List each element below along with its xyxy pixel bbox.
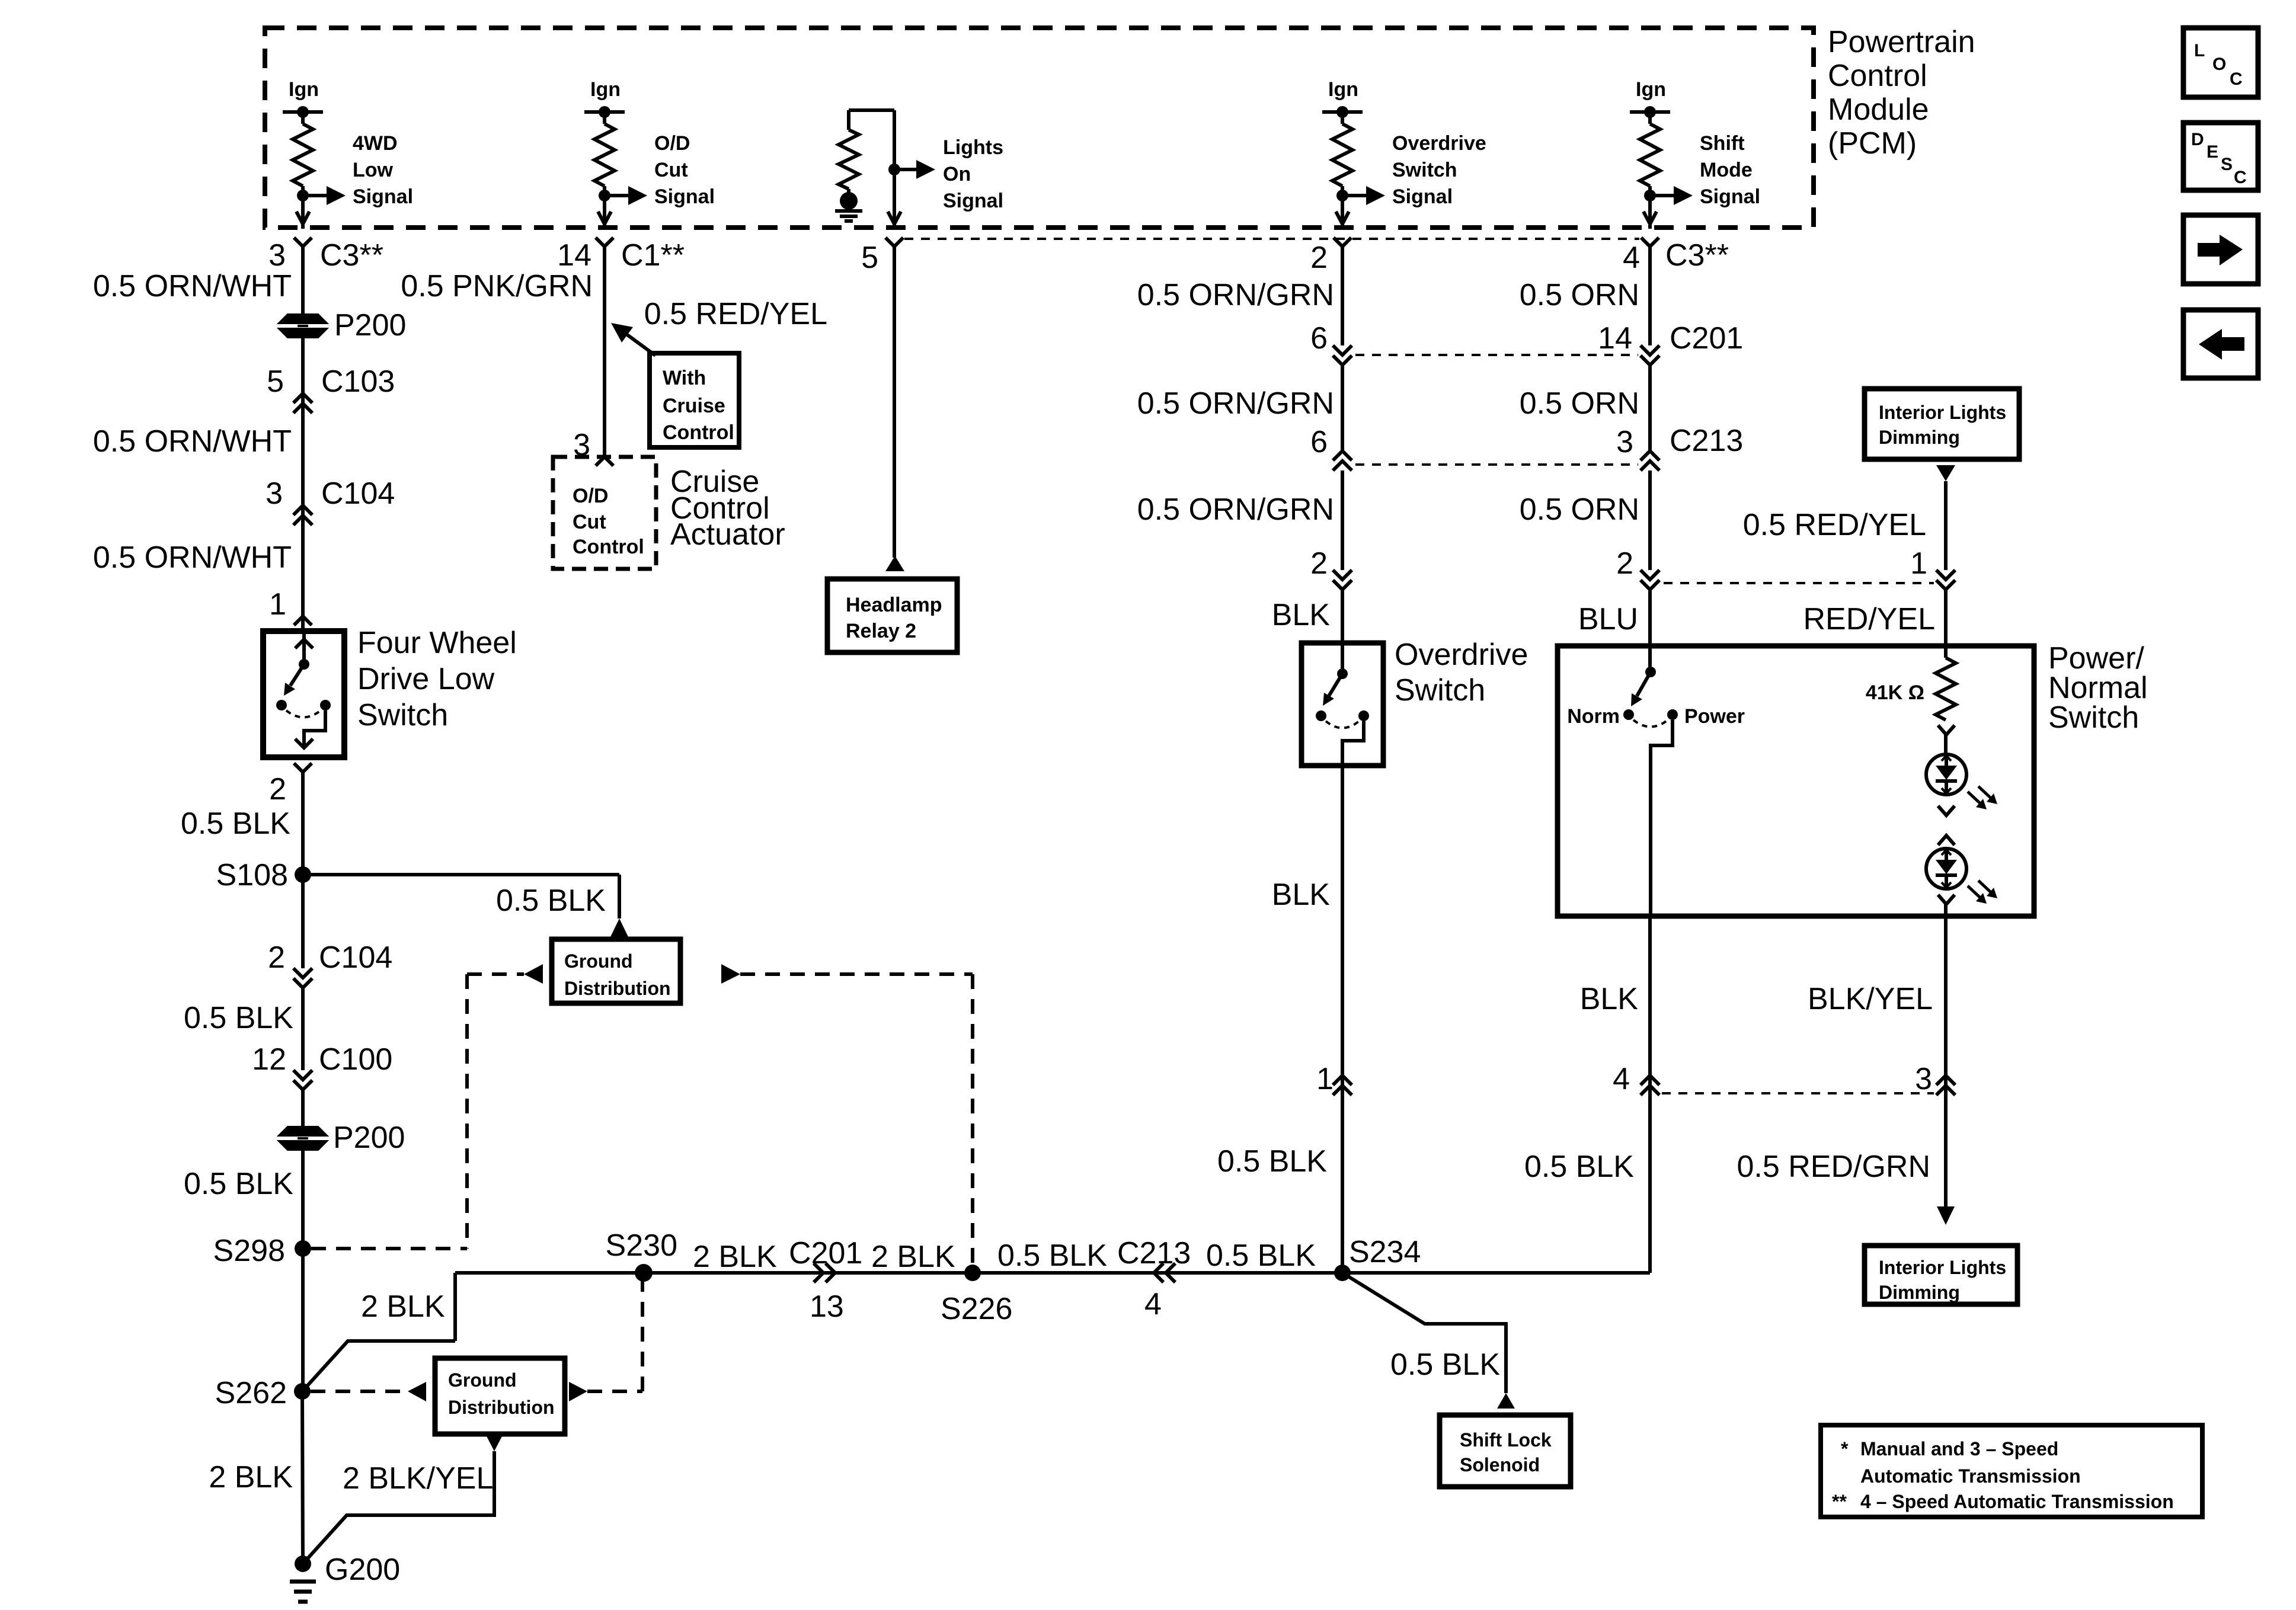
resistor Shift Mode pull-up bbox=[1640, 112, 1660, 229]
dashed wire Ground Distribution to S226 bbox=[740, 974, 973, 1266]
svg-text:12: 12 bbox=[252, 1042, 286, 1077]
svg-text:C104: C104 bbox=[319, 940, 392, 975]
connector C100 pin 12 bbox=[252, 1042, 392, 1090]
svg-text:Overdrive: Overdrive bbox=[1395, 638, 1528, 672]
node signal tap (Overdrive Switch) bbox=[1336, 186, 1385, 205]
wire 0.5 BLK (col1 P200-S298) bbox=[184, 1147, 303, 1249]
svg-text:Control: Control bbox=[1828, 59, 1927, 93]
svg-text:S230: S230 bbox=[606, 1228, 677, 1263]
svg-text:C100: C100 bbox=[319, 1042, 392, 1077]
connector C201 pin 14 (col5) bbox=[1598, 321, 1743, 365]
label Powertrain Control Module (PCM) bbox=[1828, 25, 1975, 161]
wire 0.5 ORN (col5 seg3) bbox=[1520, 470, 1650, 570]
svg-text:Cruise: Cruise bbox=[663, 395, 725, 417]
svg-text:0.5 ORN: 0.5 ORN bbox=[1520, 492, 1639, 527]
svg-text:Signal: Signal bbox=[943, 190, 1003, 212]
svg-text:0.5 ORN/GRN: 0.5 ORN/GRN bbox=[1137, 492, 1334, 527]
wire exit arrow (Overdrive Switch) bbox=[1336, 212, 1349, 224]
svg-text:0.5 RED/YEL: 0.5 RED/YEL bbox=[644, 297, 827, 331]
connector C3** pin 4 (col5) bbox=[1623, 238, 1729, 275]
wire col1 S262 to G200 bbox=[302, 1391, 303, 1564]
svg-text:BLU: BLU bbox=[1578, 602, 1638, 636]
off-page triangle to ground wire (below lower box) bbox=[485, 1434, 503, 1451]
svg-text:Ground: Ground bbox=[448, 1369, 517, 1391]
svg-text:Automatic Transmission: Automatic Transmission bbox=[1860, 1465, 2081, 1487]
box Headlamp Relay 2 bbox=[827, 579, 957, 652]
wire BLK (col5 below switch) bbox=[1580, 916, 1650, 1095]
svg-text:Dimming: Dimming bbox=[1879, 427, 1960, 448]
LED indicator 2 bbox=[1926, 849, 1997, 904]
switch Overdrive Switch bbox=[1302, 643, 1383, 766]
wire 0.5 BLK to Shift Lock Solenoid bbox=[1342, 1273, 1506, 1393]
svg-text:Actuator: Actuator bbox=[670, 517, 785, 552]
svg-text:Cut: Cut bbox=[654, 159, 688, 181]
off-page triangle to Interior Lights Dimming (lower) bbox=[1937, 1206, 1955, 1225]
switch connector pin 2 (col4) bbox=[1310, 546, 1352, 590]
node Ign (4WD Low) bbox=[283, 78, 323, 118]
svg-text:S108: S108 bbox=[216, 858, 288, 892]
label Shift Mode signal bbox=[1700, 132, 1760, 208]
svg-text:Signal: Signal bbox=[654, 185, 715, 208]
svg-text:Signal: Signal bbox=[353, 185, 413, 208]
svg-text:C104: C104 bbox=[321, 476, 395, 511]
switch pin 2 bbox=[269, 763, 312, 806]
svg-text:Interior Lights: Interior Lights bbox=[1879, 402, 2006, 423]
LED indicator 1 bbox=[1926, 754, 1997, 809]
svg-text:2: 2 bbox=[1310, 546, 1328, 581]
svg-text:0.5 BLK: 0.5 BLK bbox=[181, 806, 290, 841]
wire 0.5 ORN (col5 seg1) bbox=[1520, 257, 1650, 345]
connector row dashed (bottom switch connector) bbox=[1662, 1092, 1934, 1094]
svg-text:1: 1 bbox=[1910, 546, 1927, 581]
svg-text:Ign: Ign bbox=[1328, 78, 1358, 101]
svg-text:Four Wheel: Four Wheel bbox=[357, 626, 517, 660]
svg-text:C103: C103 bbox=[321, 364, 395, 399]
wire ground bus (2 BLK / 0.5 BLK) bbox=[455, 1271, 1650, 1275]
label Overdrive Switch signal bbox=[1392, 132, 1486, 208]
dashed wire S298 to Ground Distribution bbox=[311, 974, 524, 1249]
svg-text:On: On bbox=[943, 163, 971, 185]
svg-text:Distribution: Distribution bbox=[564, 978, 671, 999]
svg-text:C3**: C3** bbox=[320, 238, 383, 273]
wire 0.5 ORN/WHT (col1 seg2) bbox=[93, 415, 303, 524]
box Shift Lock Solenoid bbox=[1440, 1415, 1571, 1487]
wire 2 BLK (col1 S298-S262) bbox=[209, 1249, 303, 1494]
wire 0.5 ORN/GRN (col4 seg3) bbox=[1137, 470, 1342, 570]
svg-text:3: 3 bbox=[1616, 425, 1633, 459]
switch Power/Normal Switch bbox=[1558, 646, 2034, 916]
connector row dashed C213 bbox=[1355, 463, 1638, 466]
svg-text:Switch: Switch bbox=[357, 698, 448, 732]
off-page triangle right (lower Ground Distribution) bbox=[569, 1382, 587, 1401]
svg-text:With: With bbox=[663, 367, 706, 389]
svg-text:Module: Module bbox=[1828, 92, 1929, 127]
switch pin 1 bbox=[269, 587, 312, 625]
off-page triangle to Shift Lock Solenoid bbox=[1497, 1393, 1515, 1409]
svg-text:S262: S262 bbox=[215, 1376, 287, 1410]
wire BLK/YEL (col6 below switch) bbox=[1808, 916, 1946, 1095]
svg-text:5: 5 bbox=[861, 241, 878, 275]
svg-text:BLK: BLK bbox=[1272, 598, 1331, 632]
svg-text:4WD: 4WD bbox=[353, 132, 398, 155]
svg-text:(PCM): (PCM) bbox=[1828, 126, 1917, 161]
svg-text:E: E bbox=[2207, 142, 2218, 162]
connector row dashed (switch connector) bbox=[1664, 582, 1934, 584]
connector pin 3 (O/D Cut Control) bbox=[573, 428, 613, 466]
svg-text:2: 2 bbox=[1616, 546, 1633, 581]
wire 0.5 RED/YEL (col6 top) bbox=[1743, 481, 1946, 570]
label note arrow With Cruise Control bbox=[611, 323, 655, 356]
ground (PCM internal) bbox=[835, 192, 862, 221]
box O/D Cut Control (dashed) bbox=[553, 457, 656, 569]
svg-text:4 – Speed Automatic Transmissi: 4 – Speed Automatic Transmission bbox=[1860, 1491, 2174, 1512]
svg-text:1: 1 bbox=[1316, 1062, 1334, 1096]
svg-text:Overdrive: Overdrive bbox=[1392, 132, 1486, 155]
svg-text:2: 2 bbox=[1310, 241, 1328, 275]
svg-text:0.5 PNK/GRN: 0.5 PNK/GRN bbox=[401, 269, 593, 303]
wire 0.5 BLK (col1 to S108) bbox=[181, 783, 303, 968]
svg-text:Mode: Mode bbox=[1700, 159, 1753, 181]
connector C103 pin 5 bbox=[267, 364, 395, 413]
splice S226 bbox=[941, 1265, 1012, 1326]
svg-text:Cut: Cut bbox=[573, 511, 606, 533]
connector C213 pin 3 (col5) bbox=[1616, 424, 1743, 470]
svg-text:0.5 ORN/WHT: 0.5 ORN/WHT bbox=[93, 540, 292, 575]
svg-text:2 BLK: 2 BLK bbox=[693, 1240, 777, 1274]
connector C104 pin 3 bbox=[266, 476, 395, 525]
svg-text:RED/YEL: RED/YEL bbox=[1803, 602, 1935, 636]
svg-text:5: 5 bbox=[267, 364, 284, 399]
connector P200 (lower) bbox=[281, 1121, 405, 1155]
wire 0.5 BLK (col1 C104-C100) bbox=[184, 988, 303, 1070]
node Ign (Overdrive Switch) bbox=[1322, 78, 1363, 118]
label O/D Cut signal bbox=[654, 132, 715, 208]
dashed wire S262 to Ground Distribution (lower) bbox=[311, 1390, 407, 1393]
svg-text:Shift: Shift bbox=[1700, 132, 1745, 155]
svg-text:Power: Power bbox=[1684, 705, 1745, 728]
svg-text:0.5 BLK: 0.5 BLK bbox=[184, 1001, 293, 1035]
svg-text:4: 4 bbox=[1623, 241, 1640, 275]
connector C3** pin 3 (col1) bbox=[268, 238, 383, 273]
svg-text:C3**: C3** bbox=[1665, 238, 1729, 273]
connector C104 pin 2 (lower) bbox=[268, 940, 392, 988]
svg-text:Signal: Signal bbox=[1392, 185, 1453, 208]
connector C201 pin 6 (col4) bbox=[1310, 321, 1352, 365]
wire exit arrow (O/D Cut) bbox=[598, 212, 611, 224]
wire 0.5 ORN (col5 seg2) bbox=[1520, 365, 1650, 451]
svg-text:Ground: Ground bbox=[564, 950, 633, 972]
svg-text:2: 2 bbox=[268, 940, 285, 975]
wire BLK (col4 to Overdrive Switch) bbox=[1272, 590, 1342, 674]
wire 0.5 BLK (col5 to bus) bbox=[1524, 1095, 1650, 1273]
svg-text:1: 1 bbox=[269, 587, 286, 622]
label Lights On Signal bbox=[943, 136, 1003, 212]
switch Four Wheel Drive Low Switch bbox=[263, 631, 344, 757]
connector row dashed C201 bbox=[1355, 354, 1638, 356]
node Lights On tap bbox=[888, 110, 935, 229]
svg-text:0.5 ORN/GRN: 0.5 ORN/GRN bbox=[1137, 386, 1334, 421]
svg-text:S226: S226 bbox=[941, 1292, 1012, 1326]
svg-text:0.5 ORN: 0.5 ORN bbox=[1520, 386, 1639, 421]
node Ign (Shift Mode) bbox=[1630, 78, 1670, 118]
node Ign (O/D Cut) bbox=[584, 78, 625, 118]
svg-text:4: 4 bbox=[1613, 1062, 1630, 1096]
off-page triangle left (lower Ground Distribution) bbox=[408, 1382, 426, 1401]
resistor Lights On pull-down (internal, grounded) bbox=[839, 110, 894, 196]
box With Cruise Control bbox=[650, 353, 739, 447]
svg-text:O/D: O/D bbox=[654, 132, 690, 155]
ground G200 bbox=[290, 1553, 400, 1602]
svg-text:Control: Control bbox=[663, 421, 734, 444]
svg-text:Low: Low bbox=[353, 159, 394, 181]
resistor O/D Cut pull-up bbox=[594, 112, 615, 229]
svg-text:Distribution: Distribution bbox=[448, 1397, 555, 1418]
connector C201 pin 13 (bus) bbox=[789, 1236, 862, 1324]
wire 2 BLK riser S262 to ground bus bbox=[302, 1273, 455, 1391]
svg-text:0.5 ORN: 0.5 ORN bbox=[1520, 278, 1639, 312]
svg-text:C213: C213 bbox=[1670, 424, 1743, 458]
svg-text:6: 6 bbox=[1310, 321, 1328, 356]
label Four Wheel Drive Low Switch bbox=[357, 626, 517, 732]
svg-text:L: L bbox=[2194, 41, 2205, 60]
connector pin 5 (col3) bbox=[861, 238, 903, 275]
node signal tap (4WD Low) bbox=[297, 186, 346, 205]
svg-text:Lights: Lights bbox=[943, 136, 1003, 159]
svg-text:14: 14 bbox=[557, 238, 591, 273]
svg-text:Solenoid: Solenoid bbox=[1460, 1454, 1540, 1475]
svg-text:Relay 2: Relay 2 bbox=[846, 620, 916, 642]
note box transmission footnotes bbox=[1821, 1425, 2202, 1517]
switch connector pin 2 (col5) bbox=[1616, 546, 1659, 590]
svg-text:2 BLK: 2 BLK bbox=[361, 1289, 445, 1324]
wire LED2 to box bottom bbox=[1938, 895, 1955, 916]
svg-text:S234: S234 bbox=[1349, 1235, 1421, 1269]
svg-text:C201: C201 bbox=[1670, 321, 1743, 356]
box Ground Distribution (lower) bbox=[435, 1358, 565, 1434]
label 4WD Low signal bbox=[353, 132, 413, 208]
box Interior Lights Dimming (upper) bbox=[1865, 389, 2019, 459]
switch connector pin 1 (col6) bbox=[1910, 546, 1955, 590]
svg-text:P200: P200 bbox=[334, 308, 406, 343]
svg-text:2 BLK: 2 BLK bbox=[209, 1460, 293, 1494]
label Overdrive Switch bbox=[1395, 638, 1528, 708]
wire RED/YEL (col6 to switch box) bbox=[1803, 590, 1946, 646]
svg-text:Shift Lock: Shift Lock bbox=[1460, 1429, 1552, 1451]
svg-text:6: 6 bbox=[1310, 425, 1328, 459]
splice S230 bbox=[606, 1228, 677, 1282]
svg-text:3: 3 bbox=[268, 238, 286, 273]
off-page triangle left (upper Ground Distribution) bbox=[524, 964, 543, 984]
wire BLK (col4 below Overdrive Switch) bbox=[1272, 766, 1342, 1095]
wire 0.5 ORN/WHT (col1 seg1) bbox=[93, 257, 303, 316]
svg-text:0.5 BLK: 0.5 BLK bbox=[1217, 1144, 1327, 1179]
node signal tap (Shift Mode) bbox=[1644, 186, 1693, 205]
connector C213 pin 6 (col4) bbox=[1310, 425, 1352, 470]
switch connector pin 1 (col4) bbox=[1316, 1062, 1352, 1096]
svg-text:0.5 RED/YEL: 0.5 RED/YEL bbox=[1743, 508, 1926, 542]
resistor 41K ohm bbox=[1866, 646, 1956, 754]
wire BLU (col5 to Power/Normal Switch) bbox=[1578, 590, 1650, 672]
svg-text:Manual and 3 – Speed: Manual and 3 – Speed bbox=[1860, 1438, 2058, 1459]
svg-text:C: C bbox=[2234, 168, 2247, 187]
svg-text:14: 14 bbox=[1598, 321, 1632, 356]
splice S262 bbox=[215, 1376, 311, 1410]
legend box DESC bbox=[2183, 123, 2258, 190]
label Cruise Control Actuator bbox=[670, 465, 785, 552]
svg-text:3: 3 bbox=[266, 476, 283, 511]
svg-text:C1**: C1** bbox=[621, 238, 685, 273]
svg-text:Switch: Switch bbox=[1392, 159, 1457, 181]
wire 0.5 ORN/GRN (col4 seg2) bbox=[1137, 365, 1342, 451]
svg-text:0.5 BLK: 0.5 BLK bbox=[1390, 1347, 1500, 1382]
svg-text:2 BLK/YEL: 2 BLK/YEL bbox=[343, 1461, 493, 1496]
svg-text:0.5 ORN/WHT: 0.5 ORN/WHT bbox=[93, 269, 292, 303]
wire exit arrow (4WD Low) bbox=[296, 212, 309, 224]
wire 0.5 ORN/WHT (col1 seg3) bbox=[93, 524, 303, 631]
svg-text:Dimming: Dimming bbox=[1879, 1282, 1960, 1303]
svg-text:Powertrain: Powertrain bbox=[1828, 25, 1975, 59]
label Power/Normal Switch bbox=[2048, 641, 2148, 735]
switch connector pin 3 (col6) bbox=[1915, 1062, 1955, 1096]
svg-text:0.5 BLK: 0.5 BLK bbox=[997, 1238, 1107, 1273]
svg-text:C213: C213 bbox=[1117, 1236, 1191, 1270]
splice S234 bbox=[1334, 1235, 1421, 1281]
wire col1 C100 to P200 bbox=[301, 1090, 305, 1129]
wire 0.5 ORN/GRN (col4 seg1) bbox=[1137, 257, 1342, 345]
svg-text:BLK: BLK bbox=[1580, 982, 1639, 1016]
svg-text:0.5 ORN/GRN: 0.5 ORN/GRN bbox=[1137, 278, 1334, 312]
svg-text:0.5 BLK: 0.5 BLK bbox=[496, 884, 606, 918]
svg-text:41K Ω: 41K Ω bbox=[1866, 681, 1924, 704]
splice symbol between LEDs bbox=[1938, 806, 1955, 845]
svg-text:Switch: Switch bbox=[2048, 700, 2139, 735]
svg-text:0.5 RED/GRN: 0.5 RED/GRN bbox=[1737, 1150, 1930, 1184]
off-page triangle right (upper Ground Distribution) bbox=[721, 964, 740, 984]
svg-text:P200: P200 bbox=[333, 1121, 405, 1155]
svg-text:Signal: Signal bbox=[1700, 185, 1760, 208]
node signal tap (O/D Cut) bbox=[599, 186, 647, 205]
connector C213 pin 4 (bus) bbox=[1117, 1236, 1191, 1321]
PCM module box (Powertrain Control Module) bbox=[265, 28, 1814, 228]
box Interior Lights Dimming (lower) bbox=[1865, 1246, 2017, 1304]
legend arrow right bbox=[2183, 215, 2258, 284]
wire 0.5 RED/YEL (col3) bbox=[644, 257, 894, 558]
resistor Overdrive Switch pull-up bbox=[1332, 112, 1352, 229]
svg-text:Ign: Ign bbox=[1636, 78, 1666, 101]
svg-text:13: 13 bbox=[810, 1289, 844, 1324]
svg-text:2 BLK: 2 BLK bbox=[871, 1240, 955, 1274]
svg-text:C: C bbox=[2230, 69, 2243, 89]
svg-text:G200: G200 bbox=[325, 1553, 400, 1587]
svg-text:0.5 BLK: 0.5 BLK bbox=[184, 1167, 293, 1201]
svg-text:Ign: Ign bbox=[590, 78, 621, 101]
off-page triangle from Interior Lights Dimming bbox=[1936, 465, 1955, 481]
wire 0.5 PNK/GRN (col2) bbox=[401, 257, 605, 457]
svg-text:Headlamp: Headlamp bbox=[846, 594, 942, 616]
svg-text:O: O bbox=[2212, 55, 2226, 74]
svg-text:2: 2 bbox=[269, 772, 286, 806]
wire exit arrow (Shift Mode) bbox=[1643, 212, 1657, 224]
svg-text:Control: Control bbox=[573, 536, 644, 558]
svg-text:**: ** bbox=[1832, 1491, 1847, 1512]
svg-text:S: S bbox=[2221, 155, 2233, 174]
svg-text:S298: S298 bbox=[213, 1234, 285, 1268]
wire exit arrow (Lights On) bbox=[888, 212, 901, 224]
legend arrow left bbox=[2183, 310, 2258, 378]
splice S298 bbox=[213, 1234, 311, 1268]
resistor 4WD Low pull-up bbox=[293, 112, 313, 229]
connector face dashed line (PCM harness connectors) bbox=[904, 238, 1639, 240]
svg-text:O/D: O/D bbox=[573, 485, 608, 507]
legend box LOC bbox=[2183, 28, 2258, 97]
wire 0.5 BLK (col4 to S234) bbox=[1217, 1095, 1342, 1273]
off-page triangle to Headlamp Relay 2 bbox=[885, 556, 904, 571]
wire 0.5 BLK branch S108 to Ground Distribution bbox=[303, 875, 629, 938]
svg-text:Drive Low: Drive Low bbox=[357, 662, 495, 696]
switch connector pin 4 (col5) bbox=[1613, 1062, 1659, 1096]
svg-text:3: 3 bbox=[1915, 1062, 1932, 1096]
box Ground Distribution (upper) bbox=[552, 939, 680, 1003]
svg-text:Ign: Ign bbox=[289, 78, 319, 101]
svg-text:D: D bbox=[2191, 130, 2204, 149]
svg-text:0.5 BLK: 0.5 BLK bbox=[1206, 1238, 1316, 1273]
connector C1** pin 14 (col2) bbox=[557, 238, 685, 273]
svg-text:4: 4 bbox=[1144, 1287, 1162, 1321]
dashed wire lower Ground Distribution to S230 bbox=[587, 1281, 642, 1391]
svg-text:Norm: Norm bbox=[1567, 705, 1620, 728]
splice S108 bbox=[216, 858, 311, 892]
wire col1 P200 to C103 bbox=[301, 334, 305, 415]
connector P200 (upper) bbox=[281, 308, 406, 343]
svg-text:Switch: Switch bbox=[1395, 673, 1485, 708]
svg-text:0.5 BLK: 0.5 BLK bbox=[1524, 1150, 1634, 1184]
svg-text:BLK/YEL: BLK/YEL bbox=[1808, 982, 1933, 1016]
connector pin 2 (col4) bbox=[1310, 238, 1351, 275]
wire 2 BLK/YEL to G200 bbox=[303, 1451, 494, 1564]
svg-text:Interior Lights: Interior Lights bbox=[1879, 1257, 2006, 1278]
svg-text:*: * bbox=[1841, 1438, 1849, 1459]
svg-text:0.5 ORN/WHT: 0.5 ORN/WHT bbox=[93, 424, 292, 459]
wire 0.5 RED/GRN (col6 to Interior Lights Dimming) bbox=[1737, 1095, 1946, 1206]
svg-text:BLK: BLK bbox=[1272, 878, 1331, 912]
